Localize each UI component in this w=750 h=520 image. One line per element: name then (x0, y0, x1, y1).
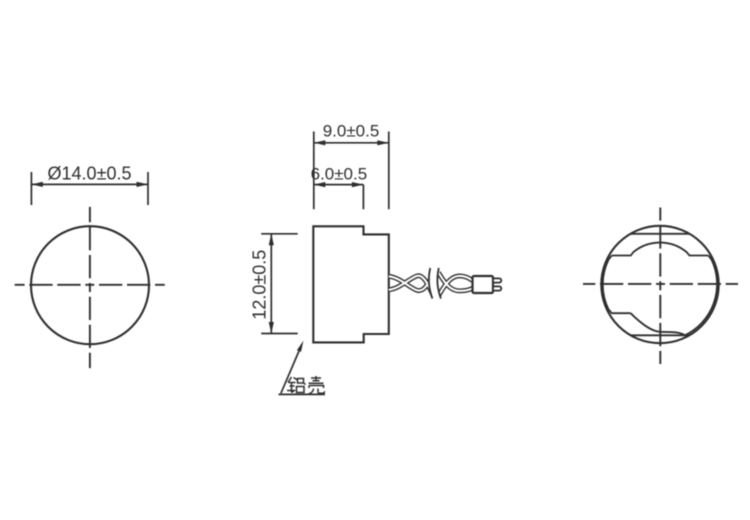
svg-text:9.0±0.5: 9.0±0.5 (323, 122, 380, 141)
svg-text:12.0±0.5: 12.0±0.5 (250, 250, 270, 320)
svg-text:6.0±0.5: 6.0±0.5 (311, 164, 368, 183)
svg-text:Ø14.0±0.5: Ø14.0±0.5 (48, 164, 132, 184)
